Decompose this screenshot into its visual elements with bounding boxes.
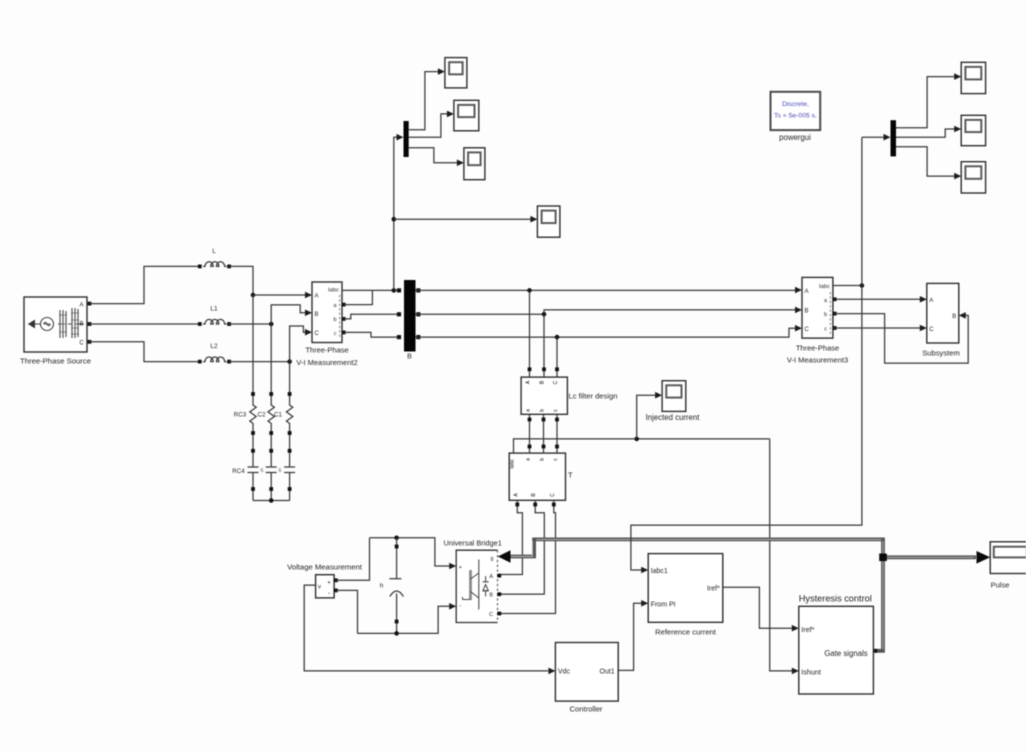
wire cap bottom rail [358, 606, 450, 633]
wire LC col3 drop [556, 337, 558, 377]
svg-text:c: c [824, 327, 827, 333]
svg-text:Lc filter design: Lc filter design [569, 392, 618, 401]
scope scope7 [961, 162, 985, 193]
inductor L1 [198, 306, 231, 326]
svg-text:6: 6 [261, 468, 264, 474]
wire T out B to bridge [500, 500, 544, 594]
svg-text:V-I Measurement2: V-I Measurement2 [296, 358, 357, 367]
wire demux1 out3 [409, 148, 458, 163]
svg-text:B: B [407, 354, 412, 361]
wire rail C bus to meas3 [416, 328, 796, 337]
svg-text:C: C [79, 341, 84, 347]
wire meas3 a to subsystem A [835, 298, 920, 300]
svg-text:C: C [315, 331, 320, 337]
svg-text:B: B [805, 309, 809, 315]
wire riser meas2 Iabc to demux1 [394, 137, 397, 290]
svg-text:Iabc1: Iabc1 [651, 568, 668, 575]
junction phase A / RC1 [251, 293, 256, 298]
svg-text:From PI: From PI [651, 601, 676, 608]
svg-text:L2: L2 [210, 343, 218, 350]
junction scope4 tap [392, 217, 397, 222]
wire meas2 c to bus rail [344, 332, 400, 337]
scope scope1 [445, 58, 467, 88]
wire LC col1 drop [529, 290, 531, 377]
wire Ishunt line down [770, 439, 792, 671]
svg-text:b: b [540, 409, 546, 412]
svg-text:A: A [489, 574, 493, 580]
wire LC to T col2 [543, 414, 545, 453]
svg-text:C: C [553, 380, 559, 384]
svg-text:Reference current: Reference current [655, 628, 717, 637]
wire meas2 a to bus rail [344, 290, 373, 304]
wire T Iabc out [514, 439, 770, 453]
svg-text:Ishunt: Ishunt [801, 668, 821, 677]
wire VM - to cap bottom [336, 590, 358, 633]
svg-text:Iabc: Iabc [510, 459, 516, 469]
wire phase C L2 to junction [229, 361, 290, 363]
inductor L [198, 248, 231, 268]
junction Iabc riser [392, 288, 397, 293]
wire phase A source to L [90, 266, 200, 303]
scope scope2 [454, 100, 479, 131]
inductor L2 [198, 343, 231, 364]
svg-text:a: a [526, 458, 532, 461]
wire T out C to bridge [500, 500, 556, 613]
svg-text:L: L [212, 248, 216, 255]
wire cap top rail [370, 538, 450, 566]
scope Pulses [990, 542, 1026, 574]
wire demux1 out2 [409, 114, 448, 137]
wire meas2 b to bus rail [344, 314, 400, 319]
junction rail B / LC col2 [542, 312, 547, 317]
svg-text:A: A [805, 289, 809, 295]
svg-text:C: C [929, 327, 934, 333]
wire RC common bottom [253, 500, 290, 502]
svg-text:b: b [333, 317, 336, 323]
wire demux2 out3 [896, 147, 955, 176]
svg-text:+: + [459, 565, 462, 571]
scope scope3 [464, 148, 485, 180]
svg-text:Ts = 5e-005 s.: Ts = 5e-005 s. [774, 113, 817, 120]
scope scope6 [961, 115, 985, 145]
wire meas3 b loop to subsystem B [835, 314, 969, 364]
svg-text:B: B [315, 312, 319, 318]
svg-text:Three-Phase: Three-Phase [796, 343, 839, 352]
reference current block [648, 554, 723, 623]
svg-text:RC3: RC3 [234, 412, 247, 419]
demux2 [891, 120, 897, 156]
svg-text:+: + [327, 580, 331, 586]
wire phase C to meas2 C [290, 326, 306, 362]
svg-text:V-I Measurement3: V-I Measurement3 [787, 355, 848, 364]
wire phase C source to L2 [90, 342, 200, 362]
svg-text:A: A [79, 303, 83, 309]
measurement block T [509, 453, 565, 500]
svg-text:Pulse: Pulse [991, 581, 1010, 590]
voltage measurement block [316, 575, 338, 598]
svg-text:Iref*: Iref* [707, 586, 720, 593]
wire phase B L1 to junction [229, 323, 271, 325]
svg-text:Discrete,: Discrete, [782, 101, 809, 108]
demux1 [404, 121, 409, 157]
wire rail B bus to meas3 [416, 310, 796, 314]
svg-text:B: B [489, 593, 493, 599]
hysteresis control block [799, 606, 874, 694]
wire LC to T col1 [529, 414, 531, 453]
wire phase A L to junction [229, 266, 253, 295]
svg-text:powergui: powergui [779, 133, 811, 142]
junction meas3 Iabc riser [860, 283, 865, 288]
svg-text:Iabc: Iabc [819, 284, 830, 290]
svg-text:C: C [489, 612, 493, 618]
svg-text:C: C [805, 327, 810, 333]
svg-text:B: B [79, 322, 83, 328]
wire demux2 out2 [896, 129, 955, 137]
svg-text:A: A [929, 298, 933, 304]
svg-text:Subsystem: Subsystem [922, 348, 960, 357]
svg-text:Universal Bridge1: Universal Bridge1 [444, 539, 502, 548]
svg-text:T: T [568, 471, 573, 480]
wire LC col2 drop [543, 314, 545, 377]
three-phase source block [24, 297, 91, 352]
bus bar B [404, 280, 416, 352]
wire tap to injected current scope [637, 395, 656, 439]
svg-text:Vdc: Vdc [558, 669, 571, 676]
svg-text:Voltage Measurement: Voltage Measurement [287, 563, 363, 572]
universal bridge1 block [456, 550, 501, 622]
svg-text:-: - [459, 602, 461, 609]
svg-text:a: a [526, 409, 532, 412]
svg-text:Three-Phase Source: Three-Phase Source [20, 357, 91, 366]
junction cap top [394, 536, 399, 541]
svg-text:Iabc: Iabc [328, 288, 339, 294]
svg-text:Three-Phase: Three-Phase [305, 346, 348, 355]
wire phase B source to L1 [90, 323, 200, 325]
svg-text:C: C [550, 493, 556, 497]
svg-text:g: g [491, 556, 494, 562]
svg-text:b: b [540, 458, 546, 461]
svg-text:Gate signals: Gate signals [824, 649, 867, 658]
junction rail C / LC col3 [555, 335, 560, 340]
junction rail A / LC col1 [527, 288, 532, 293]
svg-text:b: b [824, 312, 827, 318]
wire VM v out to controller [304, 585, 548, 671]
wire meas3 c to subsystem C [835, 327, 920, 329]
subsystem block [927, 283, 959, 343]
wire meas3 Iabc out [833, 285, 862, 287]
wire VM + to cap top [336, 538, 370, 581]
wire iref* to hysteresis [723, 587, 792, 628]
three-phase V-I measurement2 block [312, 282, 342, 343]
three-phase V-I measurement3 block [802, 277, 833, 338]
scope scope4 (y=219 row) [537, 206, 560, 237]
svg-text:v: v [318, 585, 321, 591]
LC filter design block [521, 377, 567, 414]
svg-text:Controller: Controller [570, 705, 603, 714]
scope injected current [662, 381, 686, 412]
svg-text:6: 6 [279, 468, 282, 474]
svg-text:Injected current: Injected current [646, 413, 701, 422]
RC branch 1 [248, 295, 259, 501]
capacitor h [380, 538, 404, 634]
svg-text:h: h [380, 583, 384, 590]
wire demux1 out1 [409, 72, 439, 130]
wire demux2 out1 [896, 77, 955, 128]
RC branch 2 [266, 324, 277, 501]
wire riser to demux2 and labc1 [631, 137, 862, 570]
wire phase A to meas2 A [253, 294, 306, 296]
wire tap to scope4 [394, 218, 531, 220]
scope scope5 [961, 62, 985, 93]
junction phase B / RC2 [269, 322, 274, 327]
svg-text:C2: C2 [258, 412, 266, 419]
junction phase C / RC3 [287, 359, 292, 364]
svg-text:Hysteresis control: Hysteresis control [799, 593, 872, 603]
junction cap bottom [394, 631, 399, 636]
wire rail A bus to meas3 [416, 289, 796, 291]
svg-text:c: c [334, 331, 337, 337]
big arrow into pulses [977, 551, 991, 564]
svg-text:A: A [315, 294, 319, 300]
svg-text:C1: C1 [274, 412, 282, 419]
svg-text:B: B [952, 314, 956, 320]
wire phase B to meas2 B [271, 305, 306, 324]
junction injected current tap [634, 437, 639, 442]
controller block [555, 643, 618, 702]
powergui block [771, 92, 821, 130]
svg-text:Iref*: Iref* [801, 625, 814, 634]
svg-text:L1: L1 [210, 306, 218, 313]
wire riser top to demux2 [862, 136, 884, 138]
svg-text:RC4: RC4 [232, 468, 245, 475]
wire controller out1 to from PI [618, 603, 641, 670]
svg-text:Out1: Out1 [600, 669, 615, 676]
wire LC to T col3 [556, 414, 558, 453]
thick gate-signal line [510, 539, 977, 650]
wire meas2 Iabc to bus [342, 289, 400, 291]
RC branch 3 [284, 362, 295, 501]
big arrow into bridge g [498, 550, 511, 563]
junction thick line [879, 554, 887, 562]
wire T out A to bridge [500, 500, 522, 574]
